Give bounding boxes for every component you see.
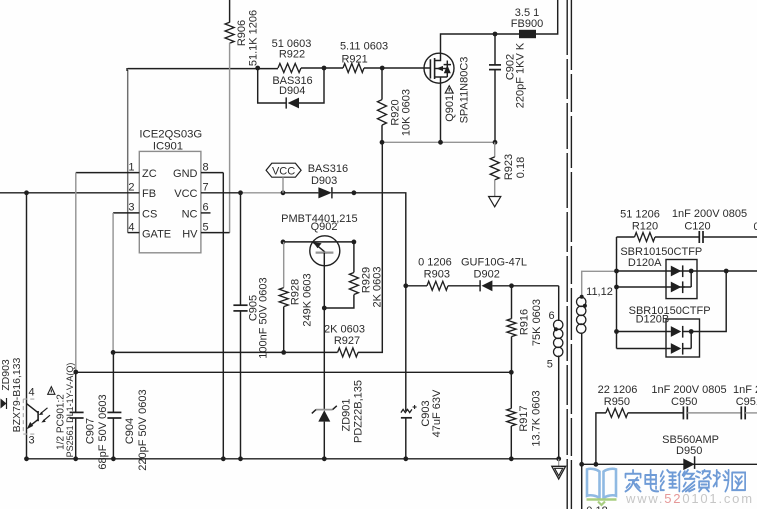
- svg-text:CS: CS: [142, 208, 157, 220]
- svg-text:51.1K 1206: 51.1K 1206: [248, 10, 260, 66]
- label cropped 0.18: [586, 505, 607, 509]
- label R927: [324, 324, 365, 347]
- resistor R120: [635, 233, 656, 242]
- zener ZD901: [312, 406, 337, 459]
- node aux polarity dot: [554, 327, 558, 331]
- svg-text:C904: C904: [124, 418, 136, 444]
- wire FB net vertical: [26, 193, 28, 459]
- resistor R920: [378, 68, 387, 142]
- capacitor C950: [683, 406, 687, 419]
- capacitor C902: [489, 34, 501, 142]
- label C950: [651, 384, 726, 408]
- diode D120B-1: [671, 326, 683, 338]
- svg-text:R922: R922: [279, 49, 305, 61]
- svg-text:www.520101.com: www.520101.com: [625, 491, 754, 506]
- label D950: [662, 434, 719, 457]
- svg-text:D120A: D120A: [628, 257, 662, 269]
- wire secondary anode rail: [616, 237, 618, 349]
- label R928: [290, 273, 314, 326]
- svg-text:D120B: D120B: [636, 313, 670, 325]
- inductor secondary winding 11-12: [577, 297, 586, 333]
- node dots secondary winding: [580, 295, 587, 308]
- wire VCC hexagon stem: [282, 177, 284, 193]
- diode D902: [480, 280, 492, 291]
- capacitor C904: [107, 352, 121, 458]
- diode D903: [318, 187, 332, 198]
- diode D120A-2: [671, 281, 683, 293]
- label Q902: [281, 213, 357, 233]
- resistor R928: [279, 242, 288, 353]
- inductor aux winding 6-5: [554, 320, 563, 356]
- label ZD901: [341, 380, 365, 443]
- label R917: [518, 390, 542, 446]
- wire R950 branch: [596, 413, 606, 464]
- svg-text:R916: R916: [519, 309, 531, 335]
- svg-text:13.7K 0603: 13.7K 0603: [531, 390, 543, 446]
- svg-text:ICE2QS03G: ICE2QS03G: [139, 129, 202, 141]
- svg-text:2K 0603: 2K 0603: [324, 324, 365, 336]
- svg-text:11,12: 11,12: [586, 286, 613, 298]
- svg-text:4: 4: [128, 221, 134, 233]
- node dot secondary rail/winding: [579, 462, 584, 467]
- pin 2 FB stub: [0, 182, 156, 201]
- svg-text:0: 0: [754, 221, 757, 233]
- node dots on primary ground rail: [24, 456, 561, 461]
- label R120: [620, 209, 660, 233]
- svg-text:0 1206: 0 1206: [418, 257, 452, 269]
- svg-text:ZC: ZC: [142, 168, 157, 180]
- label R923: [503, 154, 527, 180]
- pin 5 HV stub: [182, 221, 229, 240]
- diode D904: [286, 97, 299, 108]
- label Q901: [444, 57, 470, 124]
- wire D120B cathode join and riser: [683, 271, 727, 349]
- node dot D120A cathode: [689, 269, 694, 274]
- pin 1 ZC stub: [76, 161, 157, 180]
- label R903: [418, 257, 452, 281]
- ground symbol primary: [552, 459, 566, 479]
- svg-text:PS2561 DL1-1Y-V-A(Q): PS2561 DL1-1Y-V-A(Q): [65, 363, 75, 458]
- transistor Q902: [283, 236, 354, 266]
- wire R120 snubber net: [617, 236, 757, 238]
- label aux winding pins: [547, 310, 555, 371]
- svg-text:C120: C120: [684, 220, 710, 232]
- wire secondary output rail: [617, 270, 757, 272]
- svg-text:4: 4: [28, 387, 34, 399]
- label C903: [420, 389, 443, 437]
- optocoupler PC901 phototransistor: [27, 404, 39, 430]
- wire FB900 to transformer: [536, 0, 558, 34]
- svg-text:SPA11N80C3: SPA11N80C3: [458, 57, 470, 124]
- watermark book icon: [587, 469, 617, 505]
- label C902: [505, 42, 527, 108]
- svg-text:R917: R917: [518, 405, 530, 431]
- svg-text:47uF 63V: 47uF 63V: [431, 389, 443, 437]
- rectifier D120B box: [666, 319, 700, 357]
- wire ZC net vertical: [75, 173, 77, 372]
- wire VCC net: [241, 193, 406, 411]
- svg-text:1nF 200V 0805: 1nF 200V 0805: [651, 384, 726, 396]
- svg-text:22 1206: 22 1206: [598, 384, 638, 396]
- svg-text:HV: HV: [182, 229, 198, 241]
- svg-text:FB900: FB900: [511, 18, 543, 30]
- wire source sense node: [382, 141, 495, 143]
- pin 8 GND stub: [173, 161, 223, 180]
- label C904: [124, 389, 149, 470]
- node dots on sense node: [380, 140, 498, 145]
- svg-text:R906: R906: [236, 20, 248, 46]
- resistor R916: [507, 286, 516, 373]
- svg-text:R120: R120: [632, 220, 658, 232]
- svg-text:10K 0603: 10K 0603: [401, 89, 413, 136]
- svg-text:C951: C951: [736, 396, 757, 408]
- svg-text:Q902: Q902: [311, 221, 338, 233]
- node dot riser/output: [724, 269, 729, 274]
- label C907: [85, 394, 109, 469]
- node dot R950 branch: [594, 462, 599, 467]
- wire aux winding bottom lead: [558, 356, 560, 459]
- label R920: [390, 89, 413, 136]
- node dot ZC rail: [73, 370, 78, 375]
- transformer core line 2: [570, 0, 572, 509]
- pin 6 NC stub: [182, 202, 211, 221]
- label secondary winding pins: [586, 286, 613, 298]
- capacitor C905: [233, 193, 247, 459]
- wire D120B anodes: [617, 332, 671, 349]
- node dot R928/CS: [281, 350, 286, 355]
- node dots secondary anode rail: [614, 269, 619, 334]
- svg-text:1: 1: [128, 161, 134, 173]
- node dot R916 top: [509, 283, 514, 288]
- svg-text:ZD901: ZD901: [341, 398, 353, 431]
- label D903: [308, 163, 348, 187]
- node junction dots on gate line: [255, 66, 384, 71]
- resistor R921: [343, 64, 364, 73]
- label C905: [248, 277, 270, 358]
- svg-text:FB: FB: [142, 188, 156, 200]
- resistor R929: [324, 242, 358, 308]
- svg-text:51 1206: 51 1206: [620, 209, 660, 221]
- pin 7 VCC stub: [174, 182, 240, 201]
- label C121 partial: [754, 221, 757, 233]
- wire Q901 drain to FB900: [441, 34, 520, 53]
- svg-text:3: 3: [28, 435, 34, 447]
- label D120A: [620, 246, 702, 269]
- svg-text:3: 3: [128, 202, 134, 214]
- svg-text:5.11 0603: 5.11 0603: [340, 41, 388, 53]
- svg-text:0.18: 0.18: [586, 505, 607, 509]
- svg-text:8: 8: [203, 161, 209, 173]
- wire CS rail to R927: [113, 351, 337, 353]
- transistor Q901 (MOSFET): [424, 53, 454, 83]
- svg-text:C950: C950: [671, 396, 697, 408]
- node dot CS corner: [111, 350, 116, 355]
- wire C951 exit: [745, 412, 757, 414]
- svg-text:GND: GND: [173, 168, 198, 180]
- label R916: [519, 299, 543, 346]
- diode D950: [683, 456, 694, 470]
- node dots VCC net: [238, 190, 356, 195]
- svg-text:5: 5: [547, 359, 553, 371]
- node dot ZC rail right end: [509, 370, 514, 375]
- label R921 value: [340, 41, 388, 66]
- svg-text:100nF 50V 0603: 100nF 50V 0603: [258, 277, 270, 358]
- wire GATE net (pin4 to MOSFET gate): [127, 68, 430, 233]
- svg-text:6: 6: [203, 202, 209, 214]
- node dot VCC/R903: [403, 283, 408, 288]
- svg-text:GATE: GATE: [142, 229, 171, 241]
- label PC901 pins: [28, 387, 34, 447]
- optocoupler PC901 light arrows: [39, 408, 50, 423]
- warning symbol Q901: [445, 86, 453, 93]
- resistor R903: [427, 281, 448, 290]
- svg-text:5: 5: [203, 221, 209, 233]
- pin 4 GATE stub: [128, 221, 171, 240]
- ferrite bead FB900: [519, 30, 536, 38]
- resistor R922: [278, 64, 301, 73]
- power symbol VCC: [266, 163, 301, 177]
- svg-text:2: 2: [128, 182, 134, 194]
- label C951: [733, 384, 757, 408]
- label ZD903: [0, 357, 23, 432]
- node dot D120B cathode: [689, 329, 694, 334]
- wire secondary winding top lead: [582, 271, 617, 297]
- wire D120A cathode join: [683, 271, 692, 287]
- svg-text:R927: R927: [334, 335, 360, 347]
- svg-text:249K 0603: 249K 0603: [301, 273, 313, 326]
- svg-text:1nF 2: 1nF 2: [733, 384, 757, 396]
- resistor R917: [507, 372, 516, 459]
- svg-text:0.18: 0.18: [515, 157, 527, 178]
- wire R950 to C950: [628, 412, 684, 414]
- svg-text:1nF 200V 0805: 1nF 200V 0805: [672, 208, 747, 220]
- capacitor C951: [741, 406, 745, 419]
- svg-text:D902: D902: [474, 268, 500, 280]
- svg-text:R921: R921: [341, 54, 367, 66]
- svg-text:IC901: IC901: [153, 141, 183, 153]
- wire primary ground rail: [27, 458, 559, 460]
- svg-text:D904: D904: [279, 85, 305, 97]
- diode D120B-2: [671, 343, 683, 355]
- label R906: [236, 10, 259, 66]
- optocoupler PC901 dashed outline: [23, 399, 36, 434]
- zener ZD903 (cropped): [1, 398, 7, 409]
- op-amp U IC901 box: [139, 151, 201, 252]
- svg-text:VCC: VCC: [174, 188, 197, 200]
- capacitor C907: [70, 372, 84, 459]
- svg-text:BAS316: BAS316: [308, 163, 348, 175]
- label D904: [272, 75, 312, 97]
- svg-text:D903: D903: [311, 175, 337, 187]
- svg-text:D950: D950: [676, 445, 702, 457]
- wire Q902 base lead: [323, 253, 325, 410]
- svg-text:NC: NC: [182, 208, 198, 220]
- wire D904 bypass loop: [258, 68, 324, 103]
- wire ZC rail: [76, 371, 512, 373]
- svg-text:7: 7: [203, 182, 209, 194]
- svg-text:VCC: VCC: [272, 166, 295, 178]
- label R922 value: [272, 38, 312, 61]
- wire aux winding lead: [558, 286, 560, 321]
- rectifier D120A box: [666, 260, 697, 299]
- wire CS net vertical: [112, 213, 114, 353]
- node dot base/R929: [322, 306, 327, 311]
- svg-text:220pF 1KV K: 220pF 1KV K: [514, 42, 526, 108]
- pin 3 CS stub: [113, 202, 157, 221]
- svg-text:C907: C907: [85, 418, 97, 444]
- wire Q901 source lead: [440, 77, 442, 142]
- wire secondary winding bottom lead: [581, 333, 583, 509]
- capacitor C120: [699, 231, 703, 243]
- svg-text:Q901: Q901: [444, 95, 456, 122]
- svg-text:R928: R928: [290, 279, 302, 305]
- watermark chinese text: [625, 470, 745, 491]
- svg-text:BZX79-B16,133: BZX79-B16,133: [11, 357, 23, 432]
- wire D120A lower anode: [617, 286, 685, 288]
- svg-text:75K 0603: 75K 0603: [531, 299, 543, 346]
- capacitor C903 electrolytic: [401, 405, 417, 459]
- label PC901: [56, 363, 76, 458]
- resistor R923: [490, 142, 499, 196]
- node dot drain/C902: [493, 32, 498, 37]
- resistor R906: [225, 0, 234, 233]
- wire GND net pin8: [222, 173, 224, 459]
- resistor R950: [606, 408, 628, 417]
- ground symbol R923: [489, 197, 501, 207]
- label C120: [672, 208, 747, 232]
- label IC901 title: [139, 129, 202, 153]
- label R929: [360, 267, 383, 308]
- label FB900: [511, 7, 543, 30]
- transformer core line 1: [566, 0, 568, 509]
- svg-text:R903: R903: [424, 268, 450, 280]
- wire R903 net: [406, 285, 559, 287]
- resistor R927: [338, 142, 383, 357]
- label D902: [461, 257, 527, 281]
- svg-text:6: 6: [549, 310, 555, 322]
- svg-text:GUF10G-47L: GUF10G-47L: [461, 257, 527, 269]
- svg-text:R923: R923: [503, 154, 515, 180]
- node dots Q902: [281, 240, 357, 245]
- warning symbol PC901: [48, 387, 55, 395]
- svg-text:PDZ22B,135: PDZ22B,135: [353, 380, 365, 443]
- wire C950 to C951: [687, 412, 741, 414]
- svg-text:R950: R950: [604, 396, 630, 408]
- label R950: [598, 384, 638, 408]
- wire secondary ground rail: [582, 463, 757, 465]
- label D120B: [629, 305, 711, 325]
- node dot FB: [24, 190, 29, 195]
- diode D120A-1: [671, 265, 683, 277]
- watermark url: [625, 491, 754, 506]
